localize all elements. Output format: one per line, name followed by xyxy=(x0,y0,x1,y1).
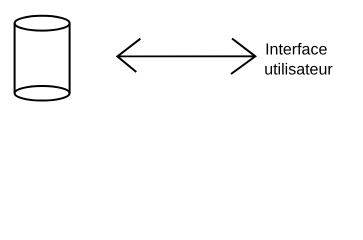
svg-text:utilisateur: utilisateur xyxy=(264,61,333,78)
svg-text:Interface: Interface xyxy=(265,41,327,58)
